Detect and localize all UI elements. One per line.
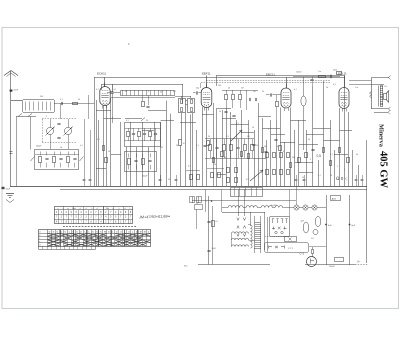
svg-text:M: M bbox=[140, 232, 142, 234]
svg-text:ALB: ALB bbox=[332, 197, 337, 200]
svg-text:50p: 50p bbox=[196, 88, 199, 90]
svg-text:50: 50 bbox=[208, 136, 210, 138]
svg-text:50: 50 bbox=[262, 91, 264, 93]
svg-text:50: 50 bbox=[252, 127, 254, 129]
svg-text:5000: 5000 bbox=[212, 248, 216, 250]
svg-text:0,1: 0,1 bbox=[188, 166, 191, 168]
svg-text:0,1: 0,1 bbox=[294, 89, 297, 91]
svg-text:Ω 0 ◦;: Ω 0 ◦; bbox=[336, 176, 348, 181]
svg-text:1M: 1M bbox=[247, 136, 250, 138]
svg-text:50: 50 bbox=[219, 111, 221, 113]
svg-text:5: 5 bbox=[310, 159, 311, 161]
svg-text:ECH11: ECH11 bbox=[97, 72, 106, 76]
svg-text:5000: 5000 bbox=[333, 70, 337, 72]
svg-text:0,5: 0,5 bbox=[317, 154, 322, 158]
svg-text:EBC11: EBC11 bbox=[266, 73, 275, 77]
svg-text:50: 50 bbox=[78, 99, 80, 101]
svg-text:8: 8 bbox=[283, 151, 284, 153]
svg-text:3: 3 bbox=[148, 91, 149, 93]
svg-text:4: 4 bbox=[344, 169, 345, 171]
svg-text:2M: 2M bbox=[160, 147, 163, 149]
svg-text:d: d bbox=[80, 208, 81, 210]
svg-text:0,1: 0,1 bbox=[216, 221, 219, 223]
svg-text:50pF: 50pF bbox=[14, 90, 19, 92]
svg-text:2: 2 bbox=[268, 129, 269, 131]
svg-text:EBF11: EBF11 bbox=[202, 72, 211, 76]
svg-text:50: 50 bbox=[146, 120, 148, 122]
svg-text:d: d bbox=[125, 208, 126, 210]
svg-text:0,1: 0,1 bbox=[96, 89, 99, 91]
svg-text:50: 50 bbox=[356, 154, 358, 156]
svg-text:500: 500 bbox=[40, 96, 43, 98]
svg-text:50: 50 bbox=[308, 139, 310, 141]
svg-text:50μF: 50μF bbox=[6, 189, 11, 191]
svg-text:C Y 1: C Y 1 bbox=[288, 248, 294, 250]
svg-text:0,5: 0,5 bbox=[246, 179, 249, 181]
svg-text:ECL11: ECL11 bbox=[338, 72, 347, 76]
svg-text:CY1: CY1 bbox=[300, 253, 305, 256]
svg-text:L: L bbox=[39, 238, 40, 240]
svg-text:50: 50 bbox=[196, 203, 198, 205]
svg-text:Wb: Wb bbox=[106, 208, 109, 210]
svg-text:50: 50 bbox=[168, 179, 170, 181]
svg-text:50: 50 bbox=[228, 88, 230, 90]
svg-text:300: 300 bbox=[292, 157, 295, 159]
svg-text:0,1: 0,1 bbox=[330, 154, 333, 156]
svg-text:10000: 10000 bbox=[296, 72, 301, 74]
svg-text:0,1: 0,1 bbox=[114, 89, 117, 91]
svg-text:0,1: 0,1 bbox=[226, 136, 229, 138]
svg-text:5000Ω: 5000Ω bbox=[329, 266, 335, 268]
svg-text:Rd.884: Rd.884 bbox=[271, 205, 277, 207]
svg-text:d: d bbox=[97, 208, 98, 210]
svg-text:0,1: 0,1 bbox=[126, 120, 129, 122]
svg-text:2M: 2M bbox=[264, 146, 267, 148]
svg-text:50: 50 bbox=[108, 151, 110, 153]
svg-text:u: u bbox=[63, 208, 64, 210]
svg-text:a: a bbox=[113, 208, 114, 210]
svg-text:1: 1 bbox=[300, 159, 301, 161]
svg-text:M: M bbox=[144, 232, 146, 234]
svg-text:0,3: 0,3 bbox=[333, 84, 336, 86]
svg-text:0,1: 0,1 bbox=[60, 99, 63, 101]
svg-text:100: 100 bbox=[218, 85, 221, 87]
svg-text:0,1: 0,1 bbox=[80, 145, 83, 147]
svg-text:10: 10 bbox=[183, 143, 185, 145]
svg-text:k: k bbox=[130, 208, 131, 210]
svg-text:50: 50 bbox=[125, 91, 127, 93]
svg-text:50: 50 bbox=[302, 177, 304, 179]
svg-text:Minerva: Minerva bbox=[378, 124, 385, 147]
svg-text:50: 50 bbox=[176, 145, 178, 147]
svg-text:50: 50 bbox=[330, 175, 332, 177]
svg-text:d: d bbox=[86, 208, 87, 210]
svg-text:50: 50 bbox=[214, 164, 216, 166]
svg-text:405 GW: 405 GW bbox=[378, 151, 389, 189]
svg-text:50: 50 bbox=[256, 145, 258, 147]
svg-text:0,5: 0,5 bbox=[277, 146, 280, 148]
svg-text:2: 2 bbox=[46, 116, 47, 118]
svg-text:440pF: 440pF bbox=[36, 146, 42, 148]
svg-text:0,1: 0,1 bbox=[196, 145, 199, 147]
svg-text:ea.CH: ea.CH bbox=[327, 75, 333, 77]
svg-text:k: k bbox=[119, 208, 120, 210]
svg-text:Ṙs: Ṙs bbox=[385, 85, 387, 88]
svg-text:3: 3 bbox=[258, 177, 259, 179]
svg-text:50: 50 bbox=[326, 87, 328, 89]
svg-text:M: M bbox=[104, 232, 106, 234]
svg-text:k: k bbox=[92, 208, 93, 210]
svg-text:U~: U~ bbox=[357, 261, 361, 264]
svg-text:4: 4 bbox=[112, 117, 113, 119]
svg-text:0,1: 0,1 bbox=[318, 175, 321, 177]
svg-text:0,1: 0,1 bbox=[97, 139, 100, 141]
svg-text:50: 50 bbox=[160, 92, 162, 94]
svg-text:500pF: 500pF bbox=[142, 176, 148, 178]
svg-text:2M: 2M bbox=[241, 88, 244, 90]
svg-text:0,1: 0,1 bbox=[236, 123, 239, 125]
svg-text:25: 25 bbox=[224, 157, 226, 159]
svg-text:0,1: 0,1 bbox=[173, 91, 176, 93]
svg-text:a: a bbox=[58, 208, 59, 210]
svg-text:1M: 1M bbox=[253, 91, 256, 93]
svg-text:50: 50 bbox=[60, 147, 62, 149]
